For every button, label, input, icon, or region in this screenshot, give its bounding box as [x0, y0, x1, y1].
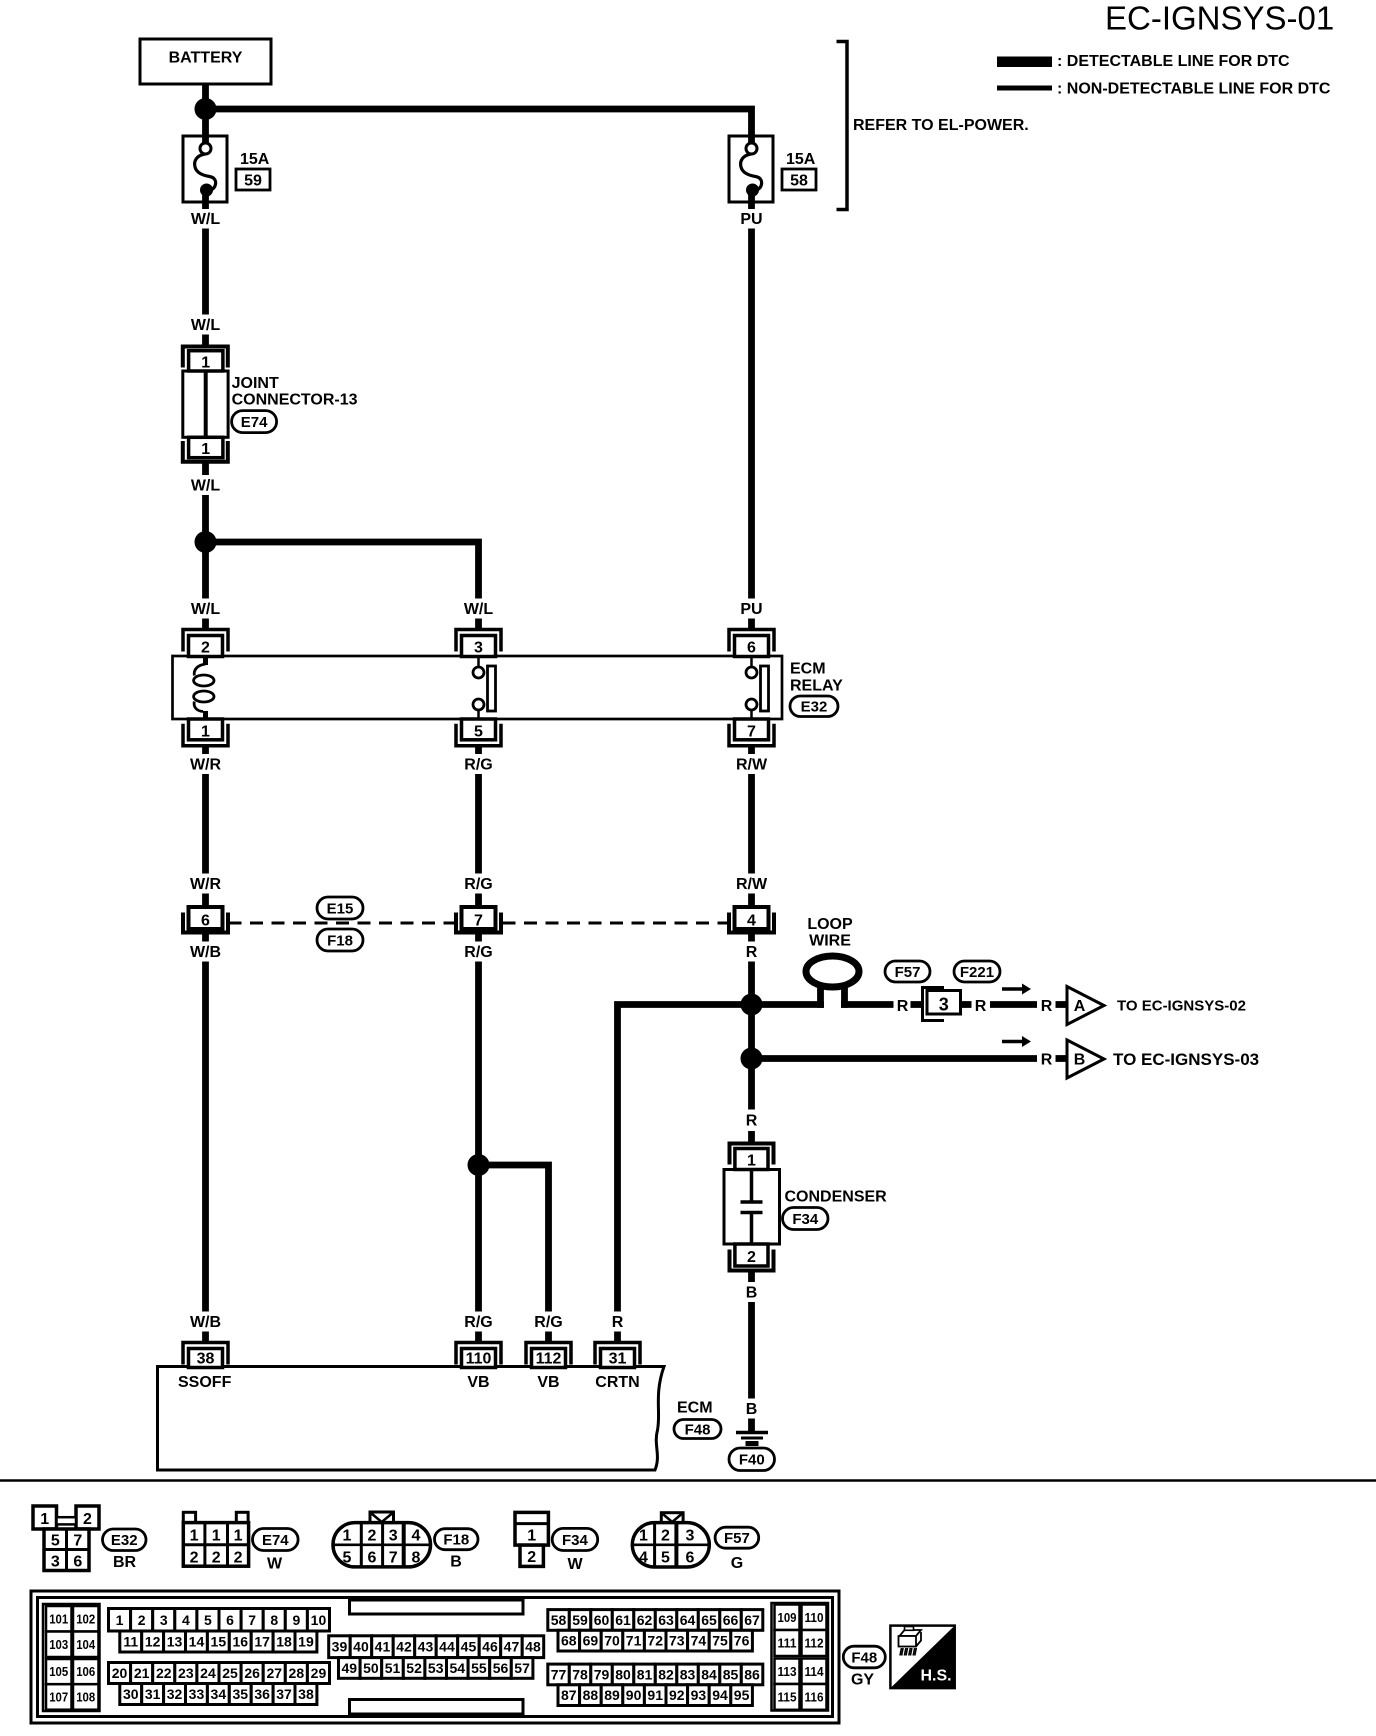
ECM connector cells 87-95: [558, 1685, 752, 1706]
wire stub into connector 3: [911, 1001, 923, 1008]
svg-text:58: 58: [551, 1612, 567, 1628]
wire W/L: [202, 229, 209, 315]
svg-text:6: 6: [226, 1612, 234, 1628]
svg-text:6: 6: [368, 1550, 377, 1567]
svg-text:90: 90: [626, 1687, 642, 1703]
svg-text:9: 9: [292, 1612, 300, 1628]
svg-text:45: 45: [461, 1639, 477, 1655]
svg-text:16: 16: [232, 1634, 248, 1650]
wire stub to pin 38: [202, 1332, 209, 1345]
label R/W above inline connector: [736, 876, 768, 893]
ECM connector label F48 GY: [843, 1646, 885, 1688]
wire R/G branch to pin 112: [479, 1165, 549, 1312]
svg-text:F48: F48: [851, 1649, 877, 1666]
svg-text:B: B: [746, 1285, 758, 1302]
ECM box: [158, 1367, 665, 1471]
ECM connector bottom tab: [350, 1700, 524, 1715]
svg-text:108: 108: [76, 1689, 95, 1704]
svg-text:F40: F40: [739, 1452, 765, 1469]
svg-text:H.S.: H.S.: [921, 1668, 952, 1685]
label B below condenser: [746, 1285, 758, 1302]
svg-text:4: 4: [412, 1528, 421, 1545]
svg-text:28: 28: [289, 1665, 305, 1681]
svg-text:112: 112: [805, 1636, 824, 1651]
legend non-detectable line: [997, 81, 1331, 98]
ECM connector cells 1-10: [109, 1609, 330, 1632]
svg-text:38: 38: [197, 1351, 215, 1368]
wire to fuse 59: [202, 109, 209, 143]
relay pin 2: [183, 630, 228, 657]
svg-text:92: 92: [669, 1687, 685, 1703]
svg-text:R: R: [746, 1113, 758, 1130]
svg-text:111: 111: [778, 1636, 797, 1651]
svg-text:1: 1: [639, 1528, 648, 1545]
svg-text:30: 30: [123, 1686, 139, 1702]
svg-text:20: 20: [112, 1665, 128, 1681]
svg-text:2: 2: [138, 1612, 146, 1628]
svg-text:ECM: ECM: [790, 661, 826, 678]
svg-text:25: 25: [222, 1665, 238, 1681]
wire stub below relay R/W: [748, 746, 755, 754]
svg-text:15: 15: [211, 1634, 227, 1650]
svg-text:SSOFF: SSOFF: [178, 1374, 232, 1391]
svg-text:PU: PU: [740, 211, 762, 228]
svg-text:: DETECTABLE LINE FOR DTC: : DETECTABLE LINE FOR DTC: [1057, 53, 1290, 70]
svg-text:TO EC-IGNSYS-03: TO EC-IGNSYS-03: [1113, 1050, 1259, 1069]
junction dot W/L branch: [195, 531, 217, 553]
svg-text:95: 95: [734, 1687, 750, 1703]
svg-text:49: 49: [342, 1660, 358, 1676]
svg-text:54: 54: [450, 1660, 466, 1676]
svg-text:7: 7: [474, 913, 483, 930]
svg-text:51: 51: [385, 1660, 401, 1676]
svg-text:6: 6: [686, 1550, 695, 1567]
svg-text:105: 105: [49, 1664, 68, 1679]
connector view label F18 B: [435, 1529, 479, 1571]
ECM relay label E32: [790, 661, 843, 717]
svg-text:104: 104: [76, 1637, 96, 1652]
svg-text:71: 71: [626, 1633, 642, 1649]
relay pin 1: [183, 719, 228, 746]
svg-text:47: 47: [504, 1639, 520, 1655]
label R below inline connector: [746, 944, 758, 961]
svg-text:74: 74: [691, 1633, 707, 1649]
svg-text:24: 24: [200, 1665, 216, 1681]
svg-text:39: 39: [332, 1639, 348, 1655]
wire bus A left and CRTN down: [618, 1005, 825, 1312]
ECM connector cells 20-29: [109, 1663, 330, 1684]
svg-text:F57: F57: [895, 964, 921, 981]
wire stub below inline R: [748, 933, 755, 942]
svg-text:83: 83: [680, 1666, 696, 1682]
wire R vertical: [748, 962, 755, 1110]
svg-text:109: 109: [778, 1610, 797, 1625]
wire stub below joint connector: [202, 462, 209, 475]
junction dot battery: [195, 98, 217, 120]
dashed connector line left: [229, 922, 455, 925]
svg-text:114: 114: [805, 1664, 825, 1679]
wire stub below relay R/G: [475, 746, 482, 754]
connector view F57: [632, 1513, 709, 1567]
wire W/B to ECM: [202, 962, 209, 1312]
connector label F221: [954, 961, 1000, 982]
svg-text:W/L: W/L: [191, 478, 221, 495]
fuse 58 label: [782, 151, 816, 190]
svg-text:R/G: R/G: [464, 757, 492, 774]
label W/L below joint connector: [191, 478, 221, 495]
svg-text:E32: E32: [111, 1532, 138, 1549]
wire stub below inline W/B: [202, 933, 209, 942]
svg-text:B: B: [1074, 1052, 1086, 1069]
svg-text:7: 7: [248, 1612, 256, 1628]
label TO EC-IGNSYS-03: [1113, 1050, 1259, 1069]
svg-text:15A: 15A: [240, 151, 270, 168]
svg-text:102: 102: [76, 1611, 95, 1626]
label R/G above pin 110: [464, 1314, 492, 1331]
ECM connector cells 30-38: [120, 1684, 317, 1705]
label R/G above pin 112: [534, 1314, 562, 1331]
svg-text:63: 63: [658, 1612, 674, 1628]
svg-text:110: 110: [805, 1610, 824, 1625]
svg-text:CONDENSER: CONDENSER: [785, 1189, 888, 1206]
ECM connector cells 101-108: [43, 1604, 100, 1711]
svg-text:RELAY: RELAY: [790, 677, 843, 694]
wire stub R/G: [475, 894, 482, 908]
title EC-IGNSYS-01: [1105, 0, 1334, 37]
wire R/G to ECM: [475, 962, 482, 1312]
connector label F57: [885, 961, 930, 982]
svg-text:70: 70: [604, 1633, 620, 1649]
svg-text:65: 65: [701, 1612, 717, 1628]
svg-text:WIRE: WIRE: [809, 933, 851, 950]
connector view label F57 G: [715, 1527, 759, 1572]
svg-text:F57: F57: [724, 1530, 750, 1547]
wire stub to joint connector: [202, 335, 209, 348]
svg-text:112: 112: [536, 1351, 562, 1368]
svg-text:VB: VB: [537, 1374, 559, 1391]
svg-text:3: 3: [686, 1528, 695, 1545]
svg-text:53: 53: [428, 1660, 444, 1676]
svg-text:6: 6: [747, 640, 756, 657]
svg-text:55: 55: [471, 1660, 487, 1676]
wire stub below condenser: [748, 1271, 755, 1283]
svg-text:1: 1: [527, 1528, 536, 1545]
ECM connector cells 11-19: [120, 1631, 317, 1652]
svg-text:W/L: W/L: [464, 601, 494, 618]
svg-text:B: B: [746, 1401, 758, 1418]
arrow B: [1002, 1036, 1031, 1047]
svg-text:72: 72: [647, 1633, 663, 1649]
junction dot B: [741, 1048, 763, 1070]
svg-text:1: 1: [212, 1528, 221, 1545]
svg-text:W/B: W/B: [190, 1314, 221, 1331]
svg-text:2: 2: [527, 1549, 536, 1566]
relay pin 7: [729, 719, 774, 746]
wire W/R: [202, 774, 209, 874]
svg-text:2: 2: [234, 1550, 243, 1567]
svg-text:33: 33: [189, 1686, 205, 1702]
svg-text:13: 13: [167, 1634, 183, 1650]
svg-text:22: 22: [156, 1665, 172, 1681]
relay pin 5: [456, 719, 501, 746]
svg-text:1: 1: [201, 723, 210, 740]
svg-text:21: 21: [134, 1665, 150, 1681]
svg-text:G: G: [731, 1555, 743, 1572]
svg-text:43: 43: [418, 1639, 434, 1655]
svg-text:W/R: W/R: [190, 757, 222, 774]
svg-text:R: R: [746, 944, 758, 961]
svg-text:44: 44: [439, 1639, 455, 1655]
svg-text:BR: BR: [113, 1554, 137, 1571]
svg-text:F48: F48: [685, 1421, 711, 1438]
label R/G below relay: [464, 757, 492, 774]
svg-text:60: 60: [594, 1612, 610, 1628]
svg-text:5: 5: [661, 1550, 670, 1567]
svg-text:R: R: [975, 998, 987, 1015]
svg-text:89: 89: [604, 1687, 620, 1703]
svg-text:W: W: [267, 1556, 283, 1573]
svg-text:5: 5: [204, 1612, 212, 1628]
svg-text:B: B: [450, 1554, 462, 1571]
H.S. view logo: [890, 1626, 954, 1689]
svg-text:4: 4: [747, 913, 756, 930]
ECM label F48: [674, 1400, 721, 1439]
ECM connector cells 39-48: [329, 1636, 544, 1658]
connector view F34: [515, 1512, 548, 1566]
svg-text:57: 57: [514, 1660, 530, 1676]
triangle A: [1067, 987, 1104, 1025]
wire stub to pin 31: [614, 1332, 621, 1345]
label R after connector 3: [975, 998, 987, 1015]
wire R/W: [748, 774, 755, 874]
svg-text:R: R: [612, 1314, 624, 1331]
svg-text:W/L: W/L: [191, 601, 221, 618]
svg-text:2: 2: [747, 1249, 756, 1266]
svg-text:34: 34: [211, 1686, 227, 1702]
relay coil: [194, 655, 214, 720]
svg-text:ECM: ECM: [677, 1400, 713, 1417]
svg-text:R: R: [1041, 1052, 1053, 1069]
ground label F40: [729, 1448, 775, 1471]
svg-text:: NON-DETECTABLE LINE FOR DTC: : NON-DETECTABLE LINE FOR DTC: [1057, 81, 1331, 98]
ECM connector F48 outline: [31, 1591, 839, 1723]
label W/B below inline connector: [190, 944, 221, 961]
ground symbol: [736, 1433, 768, 1444]
fuse 59 15A: [183, 136, 227, 209]
connector view E32: [33, 1506, 99, 1571]
svg-text:R/G: R/G: [464, 876, 492, 893]
svg-text:32: 32: [167, 1686, 183, 1702]
inline connector pin 7: [456, 907, 501, 933]
label W/B above ECM pin 38: [190, 1314, 221, 1331]
svg-text:26: 26: [244, 1665, 260, 1681]
ECM connector top tab: [350, 1600, 524, 1614]
svg-text:41: 41: [375, 1639, 391, 1655]
svg-text:85: 85: [723, 1666, 739, 1682]
inline connector pin 4: [729, 907, 774, 933]
svg-text:4: 4: [182, 1612, 190, 1628]
svg-text:3: 3: [474, 640, 483, 657]
svg-text:4: 4: [639, 1550, 648, 1567]
wire R/G: [475, 774, 482, 874]
ECM connector cells 68-76: [558, 1630, 752, 1651]
loop wire symbol: [806, 956, 859, 1008]
svg-text:EC-IGNSYS-01: EC-IGNSYS-01: [1105, 0, 1334, 37]
wire bus A to connector 3: [841, 1001, 894, 1008]
svg-text:101: 101: [49, 1611, 68, 1626]
legend detectable line: [997, 53, 1290, 70]
wire stub triangle A: [1056, 1001, 1069, 1008]
svg-text:W/B: W/B: [190, 944, 221, 961]
svg-text:R/W: R/W: [736, 876, 768, 893]
relay pin 6: [729, 630, 774, 657]
wire stubs to pins 110 112: [479, 1332, 549, 1345]
svg-text:1: 1: [234, 1528, 243, 1545]
label R above condenser: [746, 1113, 758, 1130]
svg-text:61: 61: [615, 1612, 631, 1628]
svg-text:76: 76: [734, 1633, 750, 1649]
svg-text:103: 103: [49, 1637, 68, 1652]
svg-text:80: 80: [615, 1666, 631, 1682]
fuse 59 label: [236, 151, 270, 190]
svg-text:R: R: [1041, 998, 1053, 1015]
svg-text:1: 1: [190, 1528, 199, 1545]
svg-text:E74: E74: [262, 1532, 289, 1549]
svg-text:79: 79: [594, 1666, 610, 1682]
connector view label F34 W: [552, 1528, 598, 1573]
relay pin 3: [456, 630, 501, 657]
svg-text:2: 2: [212, 1550, 221, 1567]
svg-text:113: 113: [778, 1664, 797, 1679]
svg-text:R/W: R/W: [736, 757, 768, 774]
svg-text:3: 3: [939, 995, 949, 1015]
svg-text:82: 82: [658, 1666, 674, 1682]
svg-text:VB: VB: [467, 1374, 489, 1391]
svg-text:10: 10: [311, 1612, 327, 1628]
svg-text:E74: E74: [241, 414, 268, 431]
svg-text:8: 8: [270, 1612, 278, 1628]
svg-text:84: 84: [701, 1666, 717, 1682]
wire stub to ground: [748, 1419, 755, 1432]
wire B to ground: [748, 1302, 755, 1399]
svg-text:35: 35: [232, 1686, 248, 1702]
wire stub W/R: [202, 894, 209, 908]
svg-text:BATTERY: BATTERY: [169, 50, 243, 67]
svg-text:5: 5: [474, 723, 483, 740]
ECM connector cells 109-116: [772, 1603, 829, 1711]
svg-text:F18: F18: [443, 1532, 469, 1549]
wire stub below inline R/G: [475, 933, 482, 942]
svg-text:36: 36: [254, 1686, 270, 1702]
label R at triangle A: [1041, 998, 1053, 1015]
inline connector pin 3: [923, 988, 961, 1021]
label R/G below inline connector: [464, 944, 492, 961]
svg-text:59: 59: [244, 173, 262, 190]
triangle B: [1067, 1040, 1104, 1078]
svg-text:REFER TO EL-POWER.: REFER TO EL-POWER.: [853, 117, 1029, 134]
svg-text:12: 12: [145, 1634, 161, 1650]
svg-text:GY: GY: [851, 1672, 874, 1689]
joint connector-13 E74: [183, 347, 228, 462]
svg-text:F18: F18: [327, 932, 353, 949]
ECM connector cells 58-67: [548, 1610, 763, 1631]
svg-text:46: 46: [482, 1639, 498, 1655]
connector view label E32 BR: [103, 1529, 147, 1571]
svg-text:42: 42: [396, 1639, 412, 1655]
svg-text:81: 81: [637, 1666, 653, 1682]
ECM pin 31: [595, 1343, 640, 1368]
svg-text:3: 3: [160, 1612, 168, 1628]
label R at triangle B: [1041, 1052, 1053, 1069]
svg-text:5: 5: [51, 1533, 60, 1550]
label W/L above joint connector: [191, 317, 221, 334]
wire battery bus: [206, 84, 752, 143]
svg-text:LOOP: LOOP: [807, 916, 853, 933]
bracket REFER TO EL-POWER: [837, 42, 1029, 210]
label W/R above inline connector: [190, 876, 222, 893]
label W/L above pin 2: [191, 601, 221, 618]
svg-text:52: 52: [406, 1660, 422, 1676]
label PU above pin 6: [740, 601, 762, 618]
svg-text:93: 93: [691, 1687, 707, 1703]
label W/R below relay: [190, 757, 222, 774]
svg-text:94: 94: [712, 1687, 728, 1703]
ECM relay body E32: [173, 656, 783, 719]
ECM pin 38: [183, 1343, 228, 1368]
svg-text:E15: E15: [327, 900, 354, 917]
junction dot A: [741, 994, 763, 1016]
svg-text:56: 56: [493, 1660, 509, 1676]
svg-text:1: 1: [201, 441, 210, 458]
svg-text:6: 6: [201, 913, 210, 930]
wire W/L to relay branch: [202, 495, 209, 599]
svg-text:W/R: W/R: [190, 876, 222, 893]
svg-text:W/L: W/L: [191, 317, 221, 334]
svg-text:3: 3: [51, 1554, 60, 1571]
svg-text:1: 1: [747, 1153, 756, 1170]
label W/L below fuse 59: [191, 211, 221, 228]
relay contact pins 3-5: [473, 656, 496, 719]
svg-text:1: 1: [40, 1511, 49, 1528]
svg-text:F221: F221: [960, 964, 994, 981]
label R/G above inline connector: [464, 876, 492, 893]
svg-text:CRTN: CRTN: [595, 1374, 639, 1391]
svg-text:17: 17: [254, 1634, 270, 1650]
label W/L above pin 3: [464, 601, 494, 618]
svg-text:115: 115: [778, 1689, 797, 1704]
relay contact pins 6-7: [746, 656, 769, 719]
svg-text:F34: F34: [792, 1211, 819, 1228]
wire PU: [748, 229, 755, 599]
svg-text:1: 1: [343, 1528, 352, 1545]
condenser F34: [724, 1144, 780, 1271]
svg-text:40: 40: [353, 1639, 369, 1655]
separator line: [0, 1479, 1376, 1482]
svg-text:7: 7: [389, 1550, 398, 1567]
svg-text:62: 62: [637, 1612, 653, 1628]
connector view F18: [333, 1512, 431, 1567]
svg-text:64: 64: [680, 1612, 696, 1628]
fuse 58 15A: [729, 136, 773, 209]
svg-text:W: W: [567, 1556, 583, 1573]
svg-text:5: 5: [343, 1550, 352, 1567]
ECM pin 112: [526, 1343, 571, 1368]
svg-text:58: 58: [790, 173, 808, 190]
svg-text:JOINT: JOINT: [232, 375, 279, 392]
svg-text:66: 66: [723, 1612, 739, 1628]
label PU below fuse 58: [740, 211, 762, 228]
wire stub below relay W/R: [202, 746, 209, 754]
